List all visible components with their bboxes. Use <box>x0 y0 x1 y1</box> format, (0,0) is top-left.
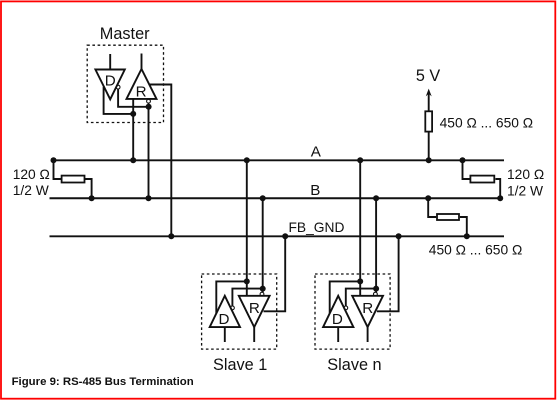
svg-text:Figure 9: RS-485 Bus Terminati: Figure 9: RS-485 Bus Termination <box>12 376 194 388</box>
svg-text:1/2 W: 1/2 W <box>13 183 49 198</box>
svg-text:A: A <box>311 143 322 160</box>
svg-text:450 Ω ... 650 Ω: 450 Ω ... 650 Ω <box>440 115 533 130</box>
svg-text:Master: Master <box>100 25 150 43</box>
svg-text:450 Ω ... 650 Ω: 450 Ω ... 650 Ω <box>429 242 523 257</box>
svg-text:D: D <box>219 311 230 328</box>
svg-text:B: B <box>310 182 320 199</box>
svg-text:R: R <box>362 300 373 317</box>
svg-text:R: R <box>136 84 147 101</box>
svg-text:R: R <box>249 300 260 317</box>
svg-text:1/2 W: 1/2 W <box>507 183 543 198</box>
svg-text:D: D <box>105 72 116 89</box>
svg-text:FB_GND: FB_GND <box>289 220 345 235</box>
svg-text:120 Ω: 120 Ω <box>13 167 50 182</box>
svg-text:D: D <box>332 311 343 328</box>
svg-text:5 V: 5 V <box>416 67 441 85</box>
svg-text:120 Ω: 120 Ω <box>507 167 544 182</box>
svg-text:Slave n: Slave n <box>327 356 381 374</box>
svg-text:Slave 1: Slave 1 <box>213 356 267 374</box>
